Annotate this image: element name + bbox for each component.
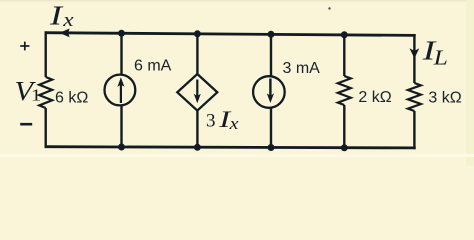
junction: bottom node, 3 mA branch	[268, 144, 275, 151]
junction: top node, 2 kOhm branch	[341, 31, 348, 38]
label I_x	[49, 1, 74, 31]
svg-text:3 mA: 3 mA	[283, 60, 321, 77]
label 3 Ix	[206, 107, 239, 133]
svg-text:x: x	[229, 115, 240, 133]
svg-text:L: L	[433, 46, 448, 69]
polarity −	[20, 123, 32, 126]
wire: 3 mA branch upper segment	[270, 34, 272, 76]
label V1	[15, 76, 42, 106]
current arrow I_x (on top bus, pointing left)	[59, 29, 69, 38]
svg-text:6 kΩ: 6 kΩ	[55, 90, 88, 107]
junction: top node, dependent source branch	[194, 30, 201, 37]
resistor 2 kOhm	[338, 76, 351, 105]
wire: dependent source branch upper segment	[196, 34, 198, 75]
resistor 6 kOhm	[39, 77, 52, 108]
junction: top node, 3 mA branch	[268, 31, 275, 38]
resistor 3 kOhm	[408, 83, 421, 111]
svg-text:3 kΩ: 3 kΩ	[428, 89, 461, 106]
svg-text:I: I	[49, 1, 64, 31]
arrow inside dependent source (down)	[194, 80, 201, 104]
junction: bottom node, 6 mA branch	[118, 144, 125, 151]
junction: bottom node, dependent source branch	[194, 144, 201, 151]
svg-text:6 mA: 6 mA	[134, 57, 172, 74]
wire: 6 mA branch lower segment	[120, 106, 122, 148]
dependent current source 3Ix (diamond)	[177, 74, 217, 111]
polarity +	[20, 42, 29, 51]
wire: 3 mA branch lower segment	[270, 108, 272, 148]
wire: dependent source branch lower segment	[196, 111, 198, 148]
junction: bottom node, 2 kOhm branch	[341, 144, 348, 151]
wire: left branch lower segment	[45, 108, 47, 148]
svg-text:2 kΩ: 2 kΩ	[358, 89, 391, 106]
wire: right bus lower segment	[413, 111, 415, 149]
junction: top node, 6 mA branch	[118, 30, 125, 37]
arrow inside 6 mA source (up)	[117, 77, 124, 103]
wire: left branch upper segment	[45, 31, 47, 77]
label I_L	[422, 36, 448, 70]
wire: 2 kOhm branch lower segment	[343, 105, 345, 148]
svg-text:3: 3	[206, 111, 216, 132]
current source 6 mA (circle)	[105, 75, 136, 106]
wire: top bus	[45, 33, 416, 36]
wire: 2 kOhm branch upper segment	[343, 35, 345, 76]
svg-text:x: x	[62, 9, 74, 31]
arrow inside 3 mA source (down)	[267, 79, 274, 104]
svg-text:1: 1	[31, 86, 41, 105]
current source 3 mA (circle)	[253, 76, 285, 108]
wire: right bus upper segment	[413, 34, 415, 83]
wire: 6 mA branch upper segment	[120, 33, 122, 74]
current arrow I_L (on right bus, pointing down)	[410, 48, 420, 58]
wire: bottom bus	[45, 147, 416, 148]
